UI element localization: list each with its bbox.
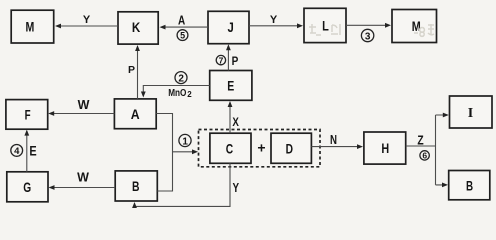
wire B to G with label W bbox=[49, 170, 116, 190]
svg-text:E: E bbox=[29, 144, 36, 159]
box M (top-right) bbox=[392, 10, 437, 43]
svg-text:W: W bbox=[77, 170, 89, 184]
svg-text:4: 4 bbox=[14, 146, 20, 157]
svg-text:X: X bbox=[232, 117, 239, 129]
wire D to H with label N bbox=[311, 132, 363, 149]
wire E to A with (2) MnO2 bbox=[141, 72, 210, 99]
svg-text:P: P bbox=[128, 64, 135, 76]
svg-text:A: A bbox=[178, 13, 186, 28]
wire E to J with (7) P bbox=[216, 44, 238, 70]
wire G to F with (4) E bbox=[11, 130, 37, 172]
wire C to E with label X bbox=[228, 101, 240, 133]
svg-text:B: B bbox=[132, 178, 140, 194]
box D bbox=[271, 133, 311, 163]
svg-text:F: F bbox=[25, 106, 31, 122]
svg-text:G: G bbox=[23, 179, 31, 195]
svg-text:Y: Y bbox=[233, 180, 240, 195]
svg-text:P: P bbox=[232, 54, 239, 68]
box F bbox=[6, 100, 48, 130]
faint watermark fragments bbox=[309, 24, 434, 36]
svg-text:+: + bbox=[257, 140, 265, 156]
box G bbox=[7, 172, 48, 202]
wire A to K with label P bbox=[128, 45, 140, 99]
svg-text:6: 6 bbox=[422, 151, 427, 161]
box E bbox=[210, 71, 252, 101]
box M (top-left) bbox=[11, 10, 54, 43]
svg-text:B: B bbox=[466, 177, 473, 193]
dashed container box bbox=[199, 130, 321, 167]
box B (bottom-right) bbox=[449, 171, 490, 200]
svg-text:3: 3 bbox=[365, 31, 371, 42]
wire L to M with (3) bbox=[346, 23, 391, 42]
wire C to B return with label Y bbox=[132, 163, 239, 208]
wire H branch to I and B with Z (6) bbox=[406, 113, 449, 188]
box J bbox=[208, 11, 249, 43]
svg-text:L: L bbox=[322, 18, 329, 34]
svg-text:Y: Y bbox=[83, 14, 91, 26]
wire K to M with label Y bbox=[55, 14, 118, 28]
svg-text:2: 2 bbox=[178, 73, 184, 84]
svg-text:5: 5 bbox=[180, 31, 185, 41]
svg-text:J: J bbox=[227, 19, 233, 35]
svg-text:MnO: MnO bbox=[168, 87, 186, 99]
svg-text:A: A bbox=[131, 106, 140, 122]
svg-text:K: K bbox=[132, 19, 140, 35]
svg-text:D: D bbox=[286, 141, 293, 157]
wire A to F with label W bbox=[48, 98, 114, 116]
box H bbox=[364, 132, 406, 164]
svg-text:W: W bbox=[78, 98, 90, 112]
svg-text:M: M bbox=[26, 18, 35, 34]
box B (bottom-left) bbox=[115, 171, 157, 201]
svg-text:2: 2 bbox=[187, 90, 192, 99]
svg-text:N: N bbox=[330, 132, 337, 147]
box C bbox=[210, 133, 251, 163]
svg-text:E: E bbox=[227, 78, 234, 94]
box K bbox=[118, 12, 158, 44]
svg-text:C: C bbox=[226, 141, 233, 157]
box L bbox=[304, 8, 346, 42]
box A bbox=[114, 99, 156, 129]
svg-text:1: 1 bbox=[182, 136, 188, 147]
svg-text:I: I bbox=[468, 106, 473, 121]
svg-text:7: 7 bbox=[219, 55, 224, 65]
connector A,B to junction bbox=[156, 114, 172, 192]
wire J to L with label Y bbox=[249, 14, 303, 28]
svg-text:H: H bbox=[381, 140, 389, 156]
wire junction to dashed box with (1) bbox=[173, 134, 199, 154]
wire J to K with label A and (5) bbox=[160, 13, 209, 41]
box I bbox=[450, 96, 493, 128]
svg-text:Y: Y bbox=[270, 14, 278, 26]
svg-text:Z: Z bbox=[417, 133, 423, 148]
